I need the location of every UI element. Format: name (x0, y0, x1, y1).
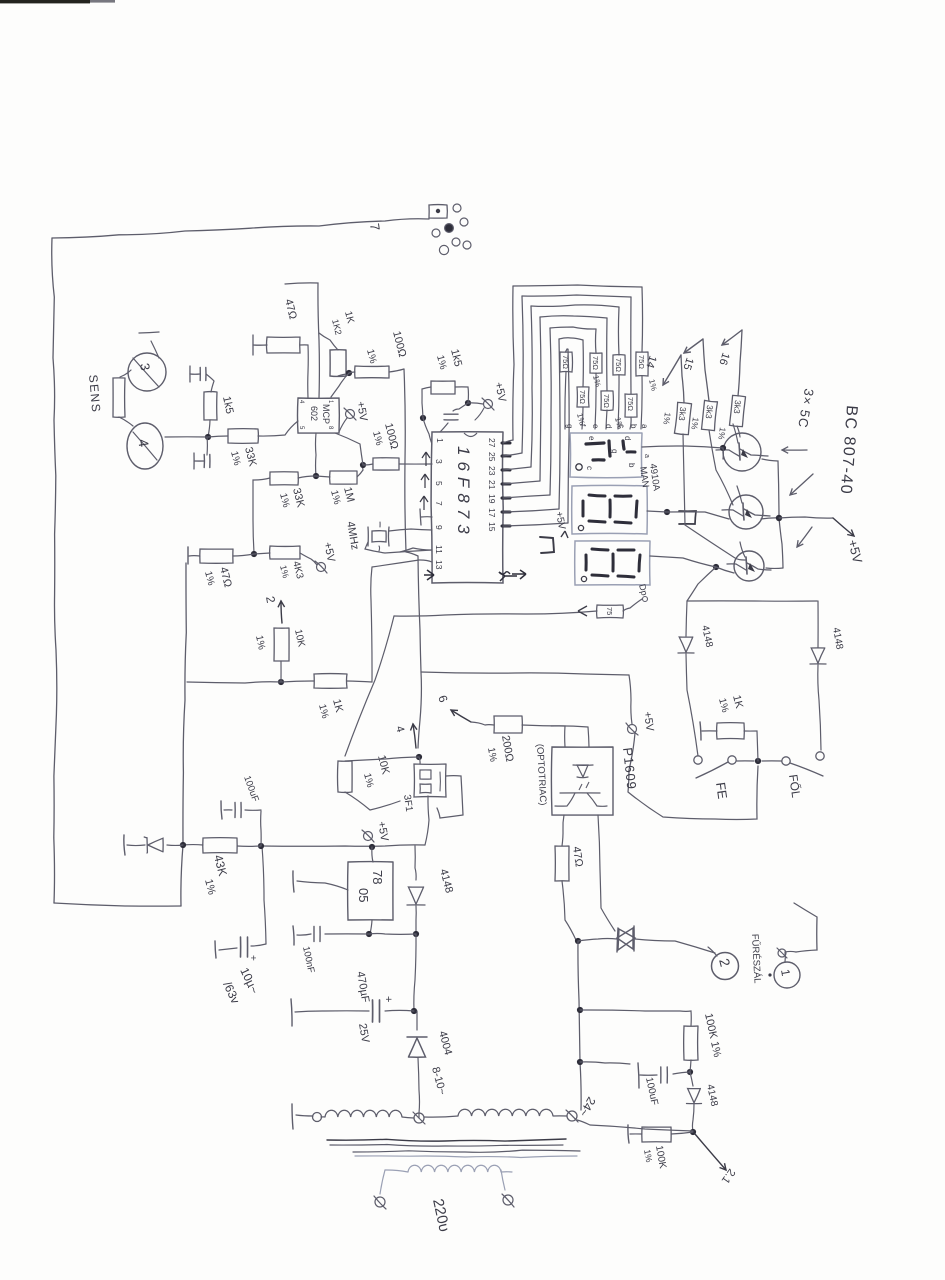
wire: 1K to node B (338, 373, 349, 376)
arrow pin6 (435, 693, 471, 722)
svg-text:d: d (623, 436, 632, 440)
wire: node G to power (468, 403, 483, 404)
wire: optotriac to 47R (562, 815, 564, 846)
resistor 100K a (684, 1026, 698, 1060)
resistor 47R pulldown (200, 549, 233, 563)
terminal 1 ammeter (768, 948, 800, 988)
svg-text:1%: 1% (361, 772, 375, 789)
wire: +5V loop to node S (628, 675, 758, 819)
svg-text:25: 25 (487, 452, 497, 462)
label BC807-40 (837, 405, 860, 496)
power +5V at 4K3 (300, 541, 337, 573)
svg-text:10µ~: 10µ~ (237, 965, 261, 996)
wire: switch common (737, 760, 782, 762)
label OPTOTRIAC (534, 744, 548, 806)
svg-text:100nF: 100nF (300, 945, 316, 974)
label 43K 1pc (202, 853, 230, 896)
svg-text:19: 19 (487, 494, 497, 504)
svg-text:3: 3 (434, 459, 444, 464)
svg-text:1K2: 1K2 (330, 318, 344, 336)
wire: node D to 100R B (363, 464, 373, 465)
svg-text:1%: 1% (689, 417, 701, 431)
node AA junction (413, 931, 419, 937)
display DS3 MAN4910A (575, 541, 650, 585)
node X junction (687, 1069, 693, 1075)
svg-text:100Ω: 100Ω (390, 330, 408, 359)
resistor 33K divider (270, 472, 298, 485)
switch S1 contact d (816, 752, 824, 760)
svg-text:7: 7 (434, 501, 444, 506)
label 10K out (253, 628, 307, 651)
svg-text:a: a (643, 454, 650, 458)
wire: branch to op-amp input (285, 283, 319, 398)
label FOL (786, 773, 804, 799)
svg-text:1%: 1% (647, 378, 659, 391)
diode 4148 sense (687, 1072, 702, 1131)
diode 4004 (407, 1011, 427, 1113)
label 4148 sw1 (699, 624, 714, 648)
svg-text:13: 13 (434, 560, 444, 570)
wire: 200R to optotriac (522, 725, 589, 747)
capacitor 10uF (215, 937, 266, 961)
svg-text:25V: 25V (356, 1022, 371, 1044)
svg-text:33K: 33K (290, 487, 307, 510)
svg-text:1%: 1% (661, 412, 673, 426)
wire: input rail right (414, 934, 416, 1011)
label 8-10 (429, 1066, 448, 1097)
svg-text:15: 15 (680, 356, 695, 371)
svg-text:1%: 1% (278, 564, 291, 579)
svg-text:10K: 10K (292, 628, 307, 648)
wire: Q3 collector to DS3 (650, 556, 734, 573)
wire bus loop and resistor 75R seg 0 (503, 285, 648, 443)
wire: node C to 1M (316, 476, 330, 477)
diode 4148 sw2 (687, 601, 826, 750)
label 7 at connector (367, 222, 383, 231)
resistor 1K sw (717, 723, 745, 739)
label 200R 1pc (485, 734, 515, 762)
transformer winding aux (321, 1110, 414, 1118)
transformer primary terminal (313, 1113, 322, 1122)
label 100uF sense (643, 1076, 660, 1106)
resistor 1k5 fb (431, 381, 455, 394)
svg-text:4148: 4148 (699, 624, 714, 648)
svg-text:g: g (610, 449, 619, 453)
label 4K3 1pc (278, 560, 305, 580)
svg-text:3F1: 3F1 (401, 794, 414, 813)
svg-text:27: 27 (487, 438, 497, 448)
capacitor 100uF sense (638, 1063, 690, 1088)
power +5V rail label (362, 820, 390, 842)
wire: analog long run (404, 369, 421, 748)
svg-text:8: 8 (327, 426, 333, 430)
wire bus loop and resistor 75R seg 1 (503, 295, 637, 456)
svg-text:75: 75 (605, 607, 614, 615)
svg-text:1k5: 1k5 (220, 395, 235, 415)
wire: pot to +5V rail (425, 796, 429, 845)
wire: +5V rail vertical (262, 845, 425, 846)
indicator arrow c (797, 527, 812, 547)
svg-text:(OPTOTRIAC): (OPTOTRIAC) (534, 744, 548, 806)
node W junction (577, 1059, 583, 1065)
connector K1 with mounting pads (429, 204, 471, 255)
label 4148 sw2 (830, 627, 845, 651)
resistor 33K sense (228, 429, 258, 444)
svg-text:4K3: 4K3 (290, 560, 305, 580)
wire: dp resistor run (394, 611, 597, 616)
indicator arrow b (790, 474, 813, 495)
wire bus loop and resistor 75R seg 6 (503, 349, 573, 526)
common pin bracket DS2 (679, 511, 696, 524)
power +5V arrow main (779, 517, 865, 565)
ground at IC pin Vss (420, 509, 432, 525)
transistor Q2 (722, 486, 770, 529)
wire: 1k5 top loop (455, 387, 468, 403)
svg-text:23: 23 (487, 466, 497, 476)
wire: node W up (580, 1062, 630, 1064)
wire: connector to left border (52, 219, 429, 238)
pot P1 box (414, 764, 446, 797)
transformer tap (413, 1112, 425, 1124)
ground at 100K b (628, 1125, 642, 1143)
svg-text:4: 4 (135, 438, 152, 449)
wire bus loop and resistor 75R seg 3 (503, 316, 613, 484)
sensor lamp E4 (127, 423, 163, 469)
load staple wire (794, 903, 817, 952)
arrow to pin 16 (716, 330, 742, 396)
svg-text:470µF: 470µF (354, 970, 371, 1003)
IC pin1 mark (435, 438, 445, 443)
wire: node F down to ground bus (187, 682, 281, 683)
svg-text:4148: 4148 (704, 1083, 719, 1107)
label 1K 1pc sw (716, 694, 745, 714)
svg-text:MCP: MCP (321, 404, 331, 424)
arrow to pin 15 (680, 339, 709, 401)
wire: node U to triac (578, 939, 617, 942)
power +5V switch loop (626, 711, 656, 735)
svg-text:47Ω: 47Ω (570, 846, 585, 868)
wire: 3k3 to Q1 base (737, 426, 740, 437)
svg-text:e: e (587, 436, 596, 441)
wire: cap to IC (440, 423, 448, 432)
svg-text:17: 17 (487, 508, 497, 518)
resistor 3k3 Q3 (661, 402, 691, 435)
svg-text:Dp: Dp (637, 583, 650, 597)
wire: 1M to node D (357, 465, 363, 477)
resistor 47R opto (555, 846, 569, 881)
node F junction (278, 679, 284, 685)
wire: 3k3 to Q3 base (683, 434, 745, 560)
capacitor 100uF 43K (221, 801, 261, 846)
resistor 1K gain (330, 350, 346, 377)
svg-text:/63v: /63v (220, 979, 242, 1005)
label 100K 1pc b (642, 1145, 668, 1170)
svg-text:g: g (565, 424, 574, 428)
resistor 1k5 sense (204, 392, 217, 420)
wire: input rail (325, 932, 416, 935)
svg-text:4: 4 (393, 725, 406, 734)
resistor 47R input (267, 337, 301, 353)
transistor Q1 (716, 424, 768, 471)
wire: node V up (580, 1010, 691, 1026)
wire: bottom-right riser (54, 903, 181, 906)
label DP (637, 583, 650, 602)
label 100K 1pc a (702, 1012, 723, 1058)
svg-text:9: 9 (434, 525, 444, 530)
resistor 200R (494, 716, 522, 733)
wire: bottom border (52, 238, 57, 903)
svg-text:1%: 1% (328, 489, 342, 506)
node T junction (416, 754, 422, 760)
svg-text:10K: 10K (375, 754, 392, 777)
capacitor to ground at node A (194, 437, 210, 469)
terminal 2 (708, 947, 739, 980)
wire: lamp3 to SENS resistor (120, 370, 131, 377)
crystal 4MHz (368, 522, 389, 551)
label 3x SC (795, 387, 817, 429)
svg-text:75Ω: 75Ω (626, 397, 635, 411)
svg-text:3: 3 (137, 362, 153, 372)
svg-text:100uF: 100uF (643, 1076, 660, 1106)
svg-text:75Ω: 75Ω (591, 356, 600, 370)
segment letters a-g (565, 424, 649, 429)
wire: node C to 33K divider (298, 476, 316, 478)
wire: 7805 out (366, 920, 372, 937)
wire: Q2 collector to DS2 (647, 509, 729, 519)
power +5V at PIC (475, 381, 508, 420)
svg-text:1%: 1% (370, 430, 384, 447)
svg-text:1: 1 (778, 968, 793, 977)
switch S1 contact a (694, 756, 702, 764)
label 4148 bypass (437, 868, 455, 895)
resistor 1M (330, 471, 357, 484)
wire: arrow6 to 200R (471, 722, 494, 725)
svg-text:6: 6 (435, 693, 451, 704)
wire: Q1 collector to DS1 (642, 445, 726, 459)
label SENS (86, 374, 103, 414)
transistor Q3 (727, 542, 771, 581)
wire: 1K chain to PIC pin13 (347, 560, 432, 682)
svg-text:1%: 1% (716, 427, 728, 441)
switch S1 contact c (782, 757, 790, 765)
svg-text:+: + (382, 996, 394, 1002)
label 470uF 25V (354, 970, 371, 1044)
ground at 7805 (293, 871, 348, 892)
sensor lamp E3 (128, 353, 166, 391)
svg-text:1%: 1% (277, 492, 291, 509)
wire: node 43K to 10uF (262, 846, 266, 944)
svg-text:4: 4 (298, 400, 304, 404)
svg-text:+5V: +5V (492, 381, 508, 404)
ground at 1K sw (700, 722, 717, 740)
svg-text:43K: 43K (211, 853, 230, 877)
svg-text:FE: FE (713, 781, 730, 800)
common pin bracket DS3 (540, 537, 554, 553)
svg-text:05: 05 (356, 888, 371, 902)
wire: node Y down (577, 1120, 693, 1131)
node A junction (205, 434, 211, 440)
wire: pin11 drop (400, 548, 432, 552)
wire: node B to MCP (331, 373, 349, 397)
node G junction (465, 400, 471, 406)
terminal 220V b (374, 1170, 386, 1209)
wire: 47R pd to ground bus (188, 547, 200, 564)
wire: crystal to IC pins (365, 529, 432, 553)
wire: gate to triac (598, 815, 615, 931)
svg-text:21: 21 (487, 480, 497, 490)
wire: 1K sw to node S (744, 731, 758, 761)
svg-text:3× 5C: 3× 5C (795, 387, 817, 429)
label FURESZAL (749, 934, 763, 984)
label 220V (429, 1197, 453, 1233)
label 47R opto (570, 846, 585, 868)
label 4148 sense (704, 1083, 719, 1107)
svg-text:16: 16 (716, 351, 731, 366)
wire: dp line to 10K saw (345, 616, 394, 756)
svg-text:1K: 1K (330, 698, 345, 715)
svg-text:2.1: 2.1 (719, 1166, 738, 1185)
marks at IC corner pins (499, 570, 526, 581)
svg-text:220υ: 220υ (429, 1197, 453, 1233)
svg-text:BC 807-40: BC 807-40 (837, 405, 860, 496)
svg-text:47Ω: 47Ω (217, 566, 234, 589)
svg-text:5: 5 (434, 481, 444, 486)
wire: MCP corner to node D (335, 433, 363, 465)
wire bus loop and resistor 75R seg 4 (503, 327, 602, 498)
wire: node AC to 43K (237, 845, 261, 847)
wire bus loop and resistor 75R seg 5 (503, 338, 589, 512)
svg-text:1%: 1% (434, 354, 448, 371)
svg-text:1%: 1% (642, 1149, 654, 1164)
wire: 47R to node U (562, 881, 576, 940)
svg-text:15: 15 (487, 522, 497, 532)
node AB junction (411, 1008, 417, 1014)
wire: node B to 100R (349, 372, 355, 373)
label pot (401, 794, 414, 813)
resistor 1K chain (314, 674, 347, 689)
svg-text:+5V: +5V (845, 538, 865, 565)
node S junction (755, 758, 761, 764)
regulator U4 7805 (348, 862, 393, 920)
resistor 3k3 Q1 (716, 395, 745, 441)
resistor 75R dp (597, 599, 642, 618)
svg-text:1%: 1% (316, 703, 330, 720)
wire: node G to cap (453, 403, 468, 411)
label 100uF 43K (241, 774, 261, 803)
node H junction (420, 415, 426, 421)
svg-text:FŐL: FŐL (786, 773, 804, 799)
svg-text:3k3: 3k3 (677, 406, 688, 421)
ground at primary (292, 1104, 313, 1129)
label 4004 (436, 1030, 454, 1057)
svg-text:75Ω: 75Ω (614, 358, 623, 372)
svg-text:1%: 1% (485, 747, 498, 763)
svg-text:602: 602 (309, 406, 319, 421)
arrow pin2 output (263, 595, 285, 623)
wire: mains run (578, 941, 581, 1110)
op-amp U2 MCP602 (298, 398, 340, 433)
svg-text:24~: 24~ (576, 1095, 598, 1120)
svg-text:2: 2 (263, 595, 278, 604)
wire: 100K a to node X (690, 1060, 691, 1072)
resistor 3k3 Q2 (689, 400, 717, 430)
label 1M 1pc (328, 486, 356, 506)
arrow output 2.1 (695, 1134, 737, 1186)
wire: staple to terminal1 (785, 951, 796, 962)
wire: node F to 1K chain (281, 681, 314, 682)
resistor 100K b (642, 1127, 693, 1142)
wire: triac to term2 (635, 939, 715, 953)
node U junction (575, 938, 581, 944)
wire bus loop and resistor 75R seg 2 (503, 305, 625, 470)
svg-text:1%: 1% (228, 450, 242, 467)
label P1609 (620, 747, 639, 791)
IC bottom pin arrows (420, 452, 430, 510)
diode 4148 bypass (407, 846, 425, 933)
node AD junction (180, 842, 186, 848)
svg-text:75Ω: 75Ω (561, 355, 570, 369)
wire: node H to IC pin1 (423, 418, 432, 444)
svg-text:4148: 4148 (437, 868, 455, 895)
svg-text:100K: 100K (653, 1145, 668, 1170)
svg-text:11: 11 (434, 545, 444, 554)
display DS1 MAN4910A (570, 433, 650, 478)
label 100R 1pc A (364, 330, 408, 365)
node Z junction (369, 844, 375, 850)
svg-text:b: b (629, 424, 638, 429)
svg-text:a: a (640, 424, 649, 429)
svg-text:1%: 1% (716, 697, 730, 714)
svg-text:1%: 1% (591, 374, 603, 387)
svg-text:4148: 4148 (830, 627, 845, 651)
resistor 43K (203, 838, 237, 853)
resistor 4K3 (270, 546, 300, 559)
svg-text:5: 5 (298, 426, 304, 430)
resistor 10K out (274, 628, 289, 661)
svg-text:16F873: 16F873 (454, 446, 473, 540)
switch S1 arm lower (696, 762, 728, 778)
capacitor 470uF (291, 996, 414, 1026)
IC U1 PIC16F873 (431, 432, 503, 583)
svg-text:1%: 1% (253, 634, 267, 651)
svg-text:1k5: 1k5 (448, 348, 464, 368)
node emitter junction (776, 515, 782, 521)
wire: emitter rail (761, 459, 783, 568)
capacitor 100nF out (293, 926, 320, 945)
label 10K 1pc saw (361, 754, 392, 789)
wire: 10K to node F (280, 661, 282, 682)
svg-text:1K: 1K (730, 694, 745, 711)
wire: 33K to MCP (258, 421, 298, 436)
label 33K 1pc divider (277, 487, 307, 510)
switch S1 contact b (728, 756, 736, 764)
label 1K 1pc gain (330, 310, 356, 336)
resistor 10K saw (338, 761, 353, 792)
svg-text:+5V: +5V (375, 820, 390, 842)
wire: MCP out to node C (315, 433, 318, 476)
transformer winding 220V (385, 1165, 512, 1172)
svg-text:1%: 1% (202, 570, 216, 587)
svg-text:+5V: +5V (354, 400, 369, 422)
svg-text:78: 78 (370, 870, 385, 884)
wire: 43K to gnd bus (183, 844, 203, 846)
svg-text:+: + (247, 955, 258, 961)
wire: node A to 33K (208, 436, 228, 437)
wire: IC region to switch +5V (421, 672, 629, 675)
svg-text:1%: 1% (364, 348, 378, 365)
label 1k5 (220, 395, 235, 415)
node D junction (360, 462, 366, 468)
